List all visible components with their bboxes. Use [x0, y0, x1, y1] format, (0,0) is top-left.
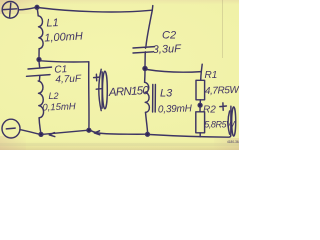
- wire bottom: minus terminal to L2 node: [20, 130, 39, 135]
- wire node B down to L3: [144, 71, 146, 83]
- wire R1 top lead: [200, 72, 203, 81]
- node L2-bottom: [39, 133, 43, 137]
- resistor R1 box: [196, 80, 205, 100]
- wire R2 bottom lead: [199, 133, 201, 137]
- woofer polarity minus: [96, 88, 101, 91]
- wire node A down to L1: [36, 9, 39, 16]
- inductor L2 coil: [38, 81, 43, 118]
- wire bottom: L3 node to tweeter: [149, 135, 230, 138]
- svg-text:4180-3641: 4180-3641: [227, 140, 239, 144]
- svg-text:R1: R1: [205, 70, 218, 81]
- wire top run to C2 corner: [39, 8, 153, 12]
- svg-text:L1: L1: [46, 17, 59, 29]
- wire bottom: L2 node to speaker node: [43, 130, 87, 134]
- inductor L1 coil: [38, 16, 43, 49]
- corner overshoot tick at R1 branch: [200, 64, 203, 71]
- node B (mid junction): [143, 67, 147, 71]
- svg-text:C2: C2: [162, 30, 176, 42]
- svg-text:L2: L2: [49, 91, 59, 101]
- R2 polarity plus: [220, 103, 227, 110]
- L3 core lines: [153, 85, 156, 113]
- wire node D to C1: [38, 61, 41, 67]
- capacitor C1: [27, 67, 52, 76]
- capacitor C2: [133, 47, 155, 54]
- svg-text:ARN150: ARN150: [108, 85, 150, 99]
- wire L1 bottom lead: [38, 49, 40, 58]
- svg-text:4,7uF: 4,7uF: [55, 74, 82, 86]
- node C (between R1 and R2): [198, 103, 202, 107]
- wire L3 bottom lead: [146, 112, 148, 133]
- arrowhead on bottom wire (mid): [94, 131, 100, 135]
- node speaker-bottom: [87, 128, 91, 132]
- resistor R2 box: [196, 112, 205, 133]
- wire speaker branch vertical: [88, 62, 90, 129]
- svg-text:0,15mH: 0,15mH: [42, 101, 76, 113]
- svg-text:0,39mH: 0,39mH: [158, 103, 193, 115]
- node D (below L1): [37, 58, 41, 62]
- svg-text:1,00mH: 1,00mH: [44, 30, 83, 44]
- loudspeaker ARN150 (woofer): [99, 69, 108, 110]
- wire node D to speaker branch corner: [41, 61, 89, 62]
- svg-text:3,3uF: 3,3uF: [152, 43, 182, 56]
- svg-text:R2: R2: [203, 105, 216, 116]
- wire R1 to node C: [199, 100, 201, 104]
- node A (top junction): [35, 5, 39, 9]
- wire C2 to node B: [144, 53, 146, 66]
- svg-text:4,7R5W: 4,7R5W: [205, 85, 239, 97]
- node L3-bottom: [146, 132, 150, 136]
- wire C2 branch vertical: [146, 10, 152, 46]
- wire L2 bottom lead: [39, 118, 41, 133]
- tweeter symbol: [228, 106, 236, 136]
- wire R2 top lead: [199, 107, 201, 112]
- wire node B to R1 branch: [147, 70, 202, 73]
- arrowhead on bottom wire (left): [49, 133, 55, 137]
- woofer polarity plus: [94, 74, 100, 81]
- corner overshoot tick at C2 branch: [151, 6, 154, 11]
- source negative terminal circle: [2, 119, 20, 138]
- wire C1 to L2: [38, 76, 40, 81]
- wire bottom: speaker node to L3 node: [91, 131, 146, 135]
- svg-text:L3: L3: [160, 88, 173, 100]
- wire top: plus terminal to node A: [18, 7, 35, 9]
- source positive terminal circle: [2, 2, 18, 19]
- svg-text:5,8R5W: 5,8R5W: [204, 120, 236, 130]
- inductor L3 coil: [145, 82, 150, 112]
